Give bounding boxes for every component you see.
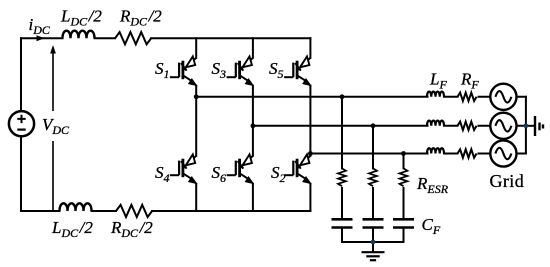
wire row A to grid [444,96,526,98]
wire leg 2 [252,38,254,211]
wire filter branch 2 [372,126,374,219]
ground (filter) [362,252,385,260]
inductor L_F row C [427,148,444,153]
capacitor C_F branch 3 [393,219,414,227]
ac source grid C [490,140,516,166]
wire right bus to ground [526,125,535,127]
resistor R_ESR branch 3 [400,168,408,186]
inductor L_F row A [427,92,444,97]
wire top DC rail [21,37,310,39]
ac source grid B [490,113,516,139]
capacitor C_F branch 1 [332,219,353,227]
resistor R_DC/2 top [115,32,151,44]
transistor S4 [170,154,197,183]
dc source V_DC [9,111,34,136]
current arrow i_DC [37,35,45,41]
node phase C leg junction [308,151,313,156]
resistor R_F row A [458,93,477,101]
inductor L_DC/2 bottom [60,203,92,211]
resistor R_ESR branch 2 [369,168,377,186]
node branch 3 tap [401,151,406,156]
wire bottom DC rail [21,210,310,212]
transistor S2 [284,154,311,183]
node capacitor ground [371,240,376,245]
resistor R_F row B [458,122,477,130]
voltage arrow V_DC [52,49,54,211]
wire row C to grid [444,153,526,155]
node phase B leg junction [251,123,256,128]
wire phase A [196,96,427,98]
resistor R_DC/2 bottom [116,205,152,217]
wire filter branch 1 [341,97,343,219]
wire filter branch 3 [403,154,405,220]
wire capacitor bottom bus [342,228,404,243]
transistor S5 [284,56,311,85]
node branch 1 tap [340,94,345,99]
wire leg 3 [309,38,311,211]
svg-text:Grid: Grid [490,171,525,191]
wire phase B [253,125,428,127]
transistor S6 [227,154,254,183]
node phase A leg junction [194,94,199,99]
wire left DC wire [20,38,22,211]
wire right bus [525,97,527,154]
ground (grid neutral) [535,116,543,136]
transistor S1 [170,56,197,85]
inductor L_F row B [427,121,444,126]
resistor R_F row C [458,149,477,157]
ac source grid A [490,84,516,110]
wire leg 1 [195,38,197,211]
wire row B to grid [444,125,526,127]
wire ground stub [372,242,374,252]
inductor L_DC/2 top [63,31,95,39]
capacitor C_F branch 2 [363,219,384,227]
resistor R_ESR branch 1 [338,168,346,186]
node grid neutral [524,123,529,128]
node branch 2 tap [371,123,376,128]
wire phase C [310,153,427,155]
transistor S3 [227,56,254,85]
